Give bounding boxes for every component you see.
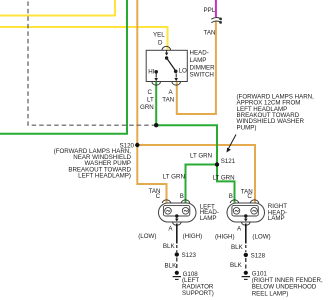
- splice S128: [244, 253, 248, 257]
- svg-text:B: B: [180, 193, 184, 200]
- svg-text:PPL: PPL: [204, 7, 216, 14]
- right headlamp high bulb: [233, 208, 240, 215]
- right headlamp low bulb: [251, 208, 258, 215]
- svg-text:SWITCH: SWITCH: [190, 72, 214, 79]
- wire blk dashed to G101: [245, 258, 247, 269]
- dimmer HI contact dot: [154, 70, 158, 74]
- wire blk dashed to G108: [176, 258, 178, 270]
- left headlamp low bulb: [165, 208, 172, 215]
- note G101 location: [252, 277, 323, 297]
- arrow from annotation to S121: [227, 135, 237, 153]
- svg-text:S123: S123: [182, 252, 197, 259]
- svg-text:LT GRN: LT GRN: [213, 175, 235, 182]
- right headlamp common node dot: [244, 214, 247, 217]
- svg-text:YEL: YEL: [153, 32, 165, 39]
- wire lt grn main to S121: [156, 125, 217, 164]
- svg-text:C: C: [148, 89, 153, 96]
- left headlamp B pin arc: [181, 200, 190, 203]
- right headlamp C pin arc: [250, 200, 259, 203]
- svg-text:D: D: [158, 39, 163, 46]
- ground G108: [173, 271, 181, 280]
- svg-text:LT GRN: LT GRN: [190, 153, 212, 160]
- dimmer A pin arrow: [174, 74, 178, 82]
- label TAN C (left headlamp): [149, 188, 161, 200]
- svg-text:BLK: BLK: [231, 244, 244, 251]
- dimmer C pin arrow: [154, 74, 158, 82]
- right headlamp B pin arc: [230, 200, 239, 203]
- right headlamp A pin arrow: [244, 216, 248, 222]
- svg-text:DIMMER: DIMMER: [190, 64, 216, 71]
- wire lt grn left branch to left headlamp B: [186, 165, 218, 203]
- note S121 annotation text: [237, 93, 315, 131]
- svg-text:(LOW): (LOW): [252, 234, 270, 241]
- wire blk right headlamp ground: [245, 224, 247, 244]
- left headlamp body: [159, 203, 197, 222]
- right headlamp body: [227, 203, 265, 222]
- left headlamp inner frame: [163, 205, 189, 216]
- wire ppl from top: [215, 0, 217, 17]
- junction dot at dimmer C wire: [154, 123, 158, 127]
- note G108 location: [182, 277, 214, 297]
- svg-text:REEL LAMP): REEL LAMP): [252, 290, 289, 297]
- left headlamp high bulb: [182, 208, 189, 215]
- svg-text:LAMP: LAMP: [200, 215, 217, 222]
- note S120 annotation text: [54, 148, 132, 180]
- wire lt grn pass-through (left): [0, 0, 127, 134]
- wire blk dashed to S128: [245, 245, 247, 252]
- svg-text:BLK: BLK: [230, 262, 243, 269]
- svg-text:BLK: BLK: [165, 263, 178, 270]
- left headlamp A pin arrow: [175, 216, 179, 222]
- svg-text:(HIGH): (HIGH): [215, 234, 235, 241]
- svg-text:TAN: TAN: [204, 30, 216, 37]
- label TAN C (right headlamp): [241, 188, 253, 200]
- svg-text:C: C: [156, 193, 161, 200]
- svg-text:SUPPORT): SUPPORT): [182, 290, 214, 297]
- svg-text:LO: LO: [179, 68, 187, 75]
- svg-text:B: B: [229, 193, 233, 200]
- wire tan from inline connector to dimmer A: [177, 21, 216, 115]
- wire yellow feed 1 (top left): [0, 0, 115, 16]
- dimmer A pin connector arc: [172, 82, 181, 85]
- svg-text:PUMP): PUMP): [237, 124, 257, 131]
- svg-text:(HIGH): (HIGH): [183, 233, 203, 240]
- svg-text:HEAD-: HEAD-: [190, 50, 209, 57]
- dimmer LO contact dot: [174, 70, 178, 74]
- left headlamp C pin arc: [162, 200, 171, 203]
- ground G101: [242, 271, 250, 280]
- wire tan S120 branch to right headlamp C: [137, 145, 255, 203]
- svg-text:LAMP: LAMP: [190, 57, 207, 64]
- svg-text:TAN: TAN: [162, 97, 174, 104]
- right headlamp inner frame: [232, 205, 258, 216]
- svg-text:GRN: GRN: [140, 104, 154, 111]
- wire tan main vertical to left headlamp C: [137, 0, 166, 203]
- splice S121: [215, 162, 219, 166]
- splice S123: [175, 252, 179, 256]
- splice S120: [135, 143, 139, 147]
- svg-text:S121: S121: [221, 158, 236, 165]
- svg-text:LEFT HEADLAMP): LEFT HEADLAMP): [78, 173, 131, 180]
- inline connector on ppl/tan wire: [211, 18, 221, 24]
- dimmer switch pivot dot: [165, 56, 168, 59]
- label RIGHT HEAD-LAMP: [268, 203, 287, 222]
- wire blk dashed to S123: [176, 245, 178, 252]
- dimmer D pin connector arc: [162, 46, 171, 50]
- svg-text:LAMP: LAMP: [268, 215, 285, 222]
- svg-text:BLK: BLK: [163, 243, 176, 250]
- svg-text:C: C: [247, 193, 252, 200]
- dimmer switch blade: [167, 58, 176, 71]
- svg-text:LT: LT: [147, 97, 154, 104]
- svg-text:S128: S128: [251, 253, 266, 260]
- label LEFT HEAD-LAMP: [200, 204, 219, 222]
- label LT GRN (dimmer C wire): [140, 97, 154, 112]
- dimmer C pin connector arc: [152, 82, 161, 85]
- svg-text:(LOW): (LOW): [138, 233, 156, 240]
- label HEAD-LAMP DIMMER SWITCH: [190, 50, 216, 79]
- left headlamp A pin connector arc: [173, 222, 182, 225]
- svg-text:HI: HI: [148, 69, 154, 76]
- right headlamp A pin connector arc: [242, 222, 251, 225]
- wire lt grn from dimmer C: [155, 82, 157, 125]
- wire lt grn right branch to right headlamp B: [217, 165, 235, 203]
- dashed wire to off-page left: [28, 0, 156, 125]
- wire blk left headlamp ground: [176, 224, 178, 244]
- svg-text:LT GRN: LT GRN: [163, 173, 185, 180]
- wire yellow feed 2 to dimmer D: [0, 27, 168, 50]
- dimmer D pin arrow: [165, 50, 168, 55]
- left headlamp common node dot: [175, 214, 178, 217]
- dimmer switch box: [146, 50, 187, 81]
